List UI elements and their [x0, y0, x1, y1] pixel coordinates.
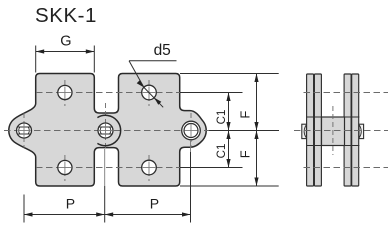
attachment hole plate2 top (d5): [142, 85, 157, 100]
G dimension line: [36, 51, 95, 53]
side view centerline: bottom holes: [304, 167, 389, 169]
side view: inner plate right: [344, 74, 351, 186]
attachment hole plate1 top: [58, 85, 72, 99]
svg-text:F: F: [238, 111, 253, 119]
pin 2 (riveted pin end): [98, 123, 113, 138]
chain plan-view silhouette (two cross-shaped attachment plates): [9, 74, 206, 187]
d5 leader: [129, 60, 177, 62]
vertical centerline hole column 1: [64, 80, 66, 106]
vertical centerline pin 1: [23, 113, 25, 148]
attachment hole plate2 bottom: [142, 160, 157, 175]
pin 1 (riveted pin end): [17, 123, 32, 138]
side view: bushing/roller block: [322, 117, 345, 146]
ext line top hole: [180, 92, 243, 94]
svg-text:P: P: [150, 196, 159, 212]
ext line chain axis (solid through dim zone): [209, 130, 279, 132]
svg-text:C1: C1: [216, 144, 228, 159]
pin 3 (roller + bushing): [182, 121, 201, 140]
F arrows: [254, 74, 258, 83]
arrowheads: [24, 49, 259, 216]
centerline: chain axis (dashed, right part): [294, 130, 388, 132]
svg-text:G: G: [60, 33, 71, 49]
side view centerline: top holes: [304, 92, 389, 94]
center cross ticks pins: [18, 124, 198, 186]
side view: bushing lines across plates: [307, 116, 360, 118]
center cross ticks holes: [59, 87, 156, 175]
dimension texts: [60, 33, 252, 211]
centerline: bottom holes (dashed): [36, 167, 182, 169]
centerline: chain axis (dashed, left part): [4, 130, 209, 132]
vertical centerline hole column 2: [148, 80, 150, 106]
G arrows: [36, 49, 45, 53]
side view: outer plate left: [307, 74, 314, 186]
G extension lines: [35, 46, 37, 73]
centerline: top holes (dashed): [36, 92, 182, 94]
side view: pin head left: [302, 124, 307, 138]
attachment hole plate1 bottom: [58, 160, 72, 174]
vertical centerline pin 3: [190, 113, 192, 148]
svg-text:d5: d5: [154, 42, 171, 59]
C1 dimension line: [228, 93, 230, 168]
P arrows: [24, 212, 33, 216]
P dimension line: [24, 214, 191, 216]
side view: inner plate left: [314, 74, 321, 186]
svg-text:C1: C1: [216, 110, 228, 125]
d5 arrows on circle: [137, 80, 144, 87]
vertical centerline pin 2: [105, 103, 107, 148]
vertical centerline side-view block: [332, 106, 334, 155]
F dimension line: [256, 74, 258, 187]
joint arc: plate1 right ear over pin 2 (top+bottom visible arc): [97, 115, 120, 145]
svg-text:F: F: [238, 150, 253, 158]
C1 arrows: [226, 93, 230, 102]
title SKK-1: [35, 4, 97, 28]
side view: outer plate right: [352, 74, 359, 186]
ext line plate top edge: [180, 73, 279, 75]
ext line plate bottom edge: [180, 185, 279, 187]
ext line bottom hole: [180, 167, 243, 169]
side view: pin head right: [359, 124, 364, 138]
svg-text:P: P: [66, 196, 75, 212]
P extension lines: [23, 195, 25, 223]
